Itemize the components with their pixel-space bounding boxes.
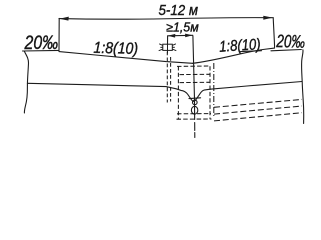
svg-text:20‰: 20‰ [275, 31, 305, 52]
svg-text:1:8(10): 1:8(10) [219, 36, 261, 56]
svg-text:1:8(10): 1:8(10) [93, 40, 138, 58]
svg-text:5-12 м: 5-12 м [159, 2, 199, 19]
svg-text:≥1,5м: ≥1,5м [166, 21, 199, 35]
svg-text:20‰: 20‰ [24, 32, 58, 54]
